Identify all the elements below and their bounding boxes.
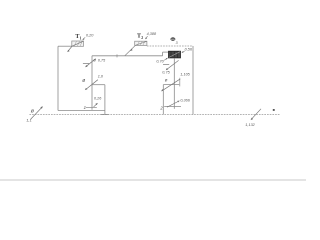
water meter dark box xyxy=(169,51,181,58)
valve slash at riser1 branch corner xyxy=(85,80,98,90)
svg-text:ø: ø xyxy=(31,108,35,114)
svg-text:0,75: 0,75 xyxy=(162,71,170,75)
upper distribution wire xyxy=(147,45,193,47)
svg-text:ø: ø xyxy=(82,78,85,84)
dimension terminator tick xyxy=(179,78,181,87)
wire T1 to riser drop xyxy=(58,45,72,47)
label T1 xyxy=(75,34,81,40)
elevation 0,56 with leader arrow xyxy=(182,48,193,53)
svg-text:ø: ø xyxy=(93,57,96,62)
svg-text:2: 2 xyxy=(141,36,143,40)
svg-text:0,70: 0,70 xyxy=(156,59,164,63)
main bottom pipe (ground main) xyxy=(29,114,280,116)
main top horizontal xyxy=(92,55,163,57)
basement pipe a xyxy=(58,110,105,112)
inlet arrow xyxy=(31,106,43,119)
leader to 0,26 xyxy=(94,103,98,107)
svg-text:4,388: 4,388 xyxy=(147,32,157,36)
svg-text:0,56: 0,56 xyxy=(185,48,193,52)
page rule bottom xyxy=(0,179,306,181)
riser2 cap dash xyxy=(164,105,181,107)
right drop vertical xyxy=(192,46,194,115)
riser1 cap dash xyxy=(86,106,97,108)
fixture T1 box xyxy=(72,41,84,46)
riser 1 vertical xyxy=(91,56,93,110)
svg-text:1,132: 1,132 xyxy=(245,123,255,127)
elevation 4,388 with leader arrow xyxy=(145,32,157,39)
valve KV3 ellipse xyxy=(171,37,176,40)
svg-text:1: 1 xyxy=(84,105,86,110)
svg-text:0,26: 0,26 xyxy=(94,96,102,100)
svg-text:1: 1 xyxy=(80,37,82,41)
svg-text:2: 2 xyxy=(159,106,163,111)
label T2 xyxy=(137,33,143,40)
valve slash at riser2 top xyxy=(163,60,179,70)
svg-text:0,75: 0,75 xyxy=(98,58,106,62)
elevation 0,20 with leader arrow xyxy=(82,34,94,41)
fixture T2 box xyxy=(135,41,147,45)
svg-text:ø: ø xyxy=(165,77,168,82)
riser 2 vertical xyxy=(173,58,175,109)
svg-text:0,20: 0,20 xyxy=(86,34,94,38)
tap diagonal from T2 to main xyxy=(125,46,135,56)
outlet arrow right xyxy=(251,109,261,120)
node mark x xyxy=(273,109,275,111)
valve slash at riser1 top xyxy=(83,59,96,68)
leader to 0,366 xyxy=(167,101,180,108)
step up vertical xyxy=(162,52,164,56)
svg-text:1,0: 1,0 xyxy=(98,75,104,79)
branch drop vertical xyxy=(104,85,106,115)
branch horizontal riser2 xyxy=(163,84,179,86)
elevation 0,70 with leader arrow xyxy=(156,58,168,64)
valve slash at riser2 branch corner xyxy=(161,79,180,92)
branch drop vertical riser2 xyxy=(162,85,164,115)
svg-text:1,1: 1,1 xyxy=(26,118,32,123)
drop vertical from T1 xyxy=(57,46,59,110)
svg-text:0,366: 0,366 xyxy=(180,98,190,102)
svg-text:3: 3 xyxy=(176,41,178,45)
junction tick xyxy=(116,54,118,57)
branch horizontal riser1 xyxy=(92,84,105,86)
tap arrow at T1 xyxy=(67,46,72,52)
upper horizontal to meter xyxy=(163,51,169,53)
foot tick xyxy=(101,113,109,115)
svg-text:1,105: 1,105 xyxy=(180,72,190,76)
